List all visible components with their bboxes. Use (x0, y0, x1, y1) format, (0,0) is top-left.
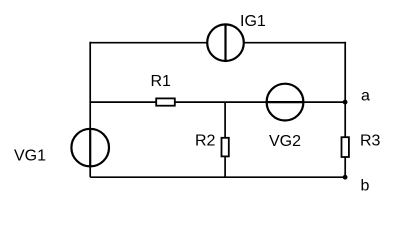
wire top left segment (90, 42, 207, 44)
resistor R1 (156, 98, 175, 105)
wire right side lower (344, 157, 346, 178)
wire left side lower (89, 166, 91, 177)
wire left side upper (89, 42, 91, 129)
svg-text:VG2: VG2 (269, 133, 301, 150)
svg-text:R1: R1 (151, 73, 172, 90)
svg-text:IG1: IG1 (240, 13, 266, 30)
resistor R3 (342, 137, 349, 157)
svg-text:R3: R3 (360, 133, 381, 150)
wire R2 branch lower (224, 156, 226, 178)
svg-text:VG1: VG1 (14, 148, 46, 165)
resistor R2 (222, 138, 229, 157)
wire right side upper (344, 42, 346, 102)
wire right side middle (344, 102, 346, 138)
wire bottom side (90, 176, 345, 178)
wire middle left segment (90, 101, 157, 103)
wire R2 branch upper (224, 102, 226, 138)
wire middle center segment (175, 101, 267, 103)
node b (343, 175, 348, 180)
svg-text:b: b (361, 178, 370, 195)
current source IG1 (207, 24, 244, 61)
wire middle right segment (303, 101, 345, 103)
voltage source VG1 (71, 129, 109, 167)
svg-text:R2: R2 (195, 133, 216, 150)
wire top right segment (244, 42, 345, 44)
svg-text:a: a (361, 88, 370, 105)
voltage source VG2 (267, 84, 304, 121)
node a (343, 100, 348, 105)
